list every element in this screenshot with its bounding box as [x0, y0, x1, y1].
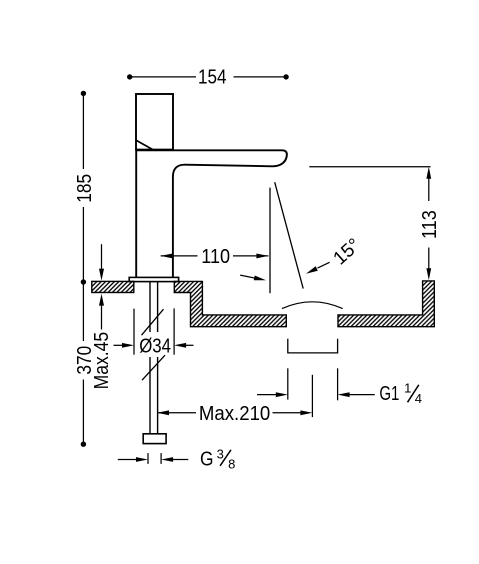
G3/8 right arrow line — [172, 459, 188, 461]
Max.45 label — [91, 332, 113, 390]
dim 185 top dot — [81, 91, 86, 96]
svg-text:G: G — [200, 448, 214, 470]
Max.45 upper arrowhead — [99, 269, 104, 281]
svg-text:Ø34: Ø34 — [139, 336, 171, 358]
dim 34 label background — [138, 336, 173, 355]
dim 185 label — [74, 174, 96, 203]
svg-text:185: 185 — [74, 174, 96, 203]
spout tip extension line — [309, 166, 430, 168]
water stream 15 deg slanted line — [275, 182, 304, 288]
15 deg arrowhead — [306, 266, 318, 273]
dim 370 line upper — [82, 282, 84, 341]
supply pipe left line upper — [149, 282, 151, 332]
supply pipe left line lower — [149, 357, 151, 434]
dim 110 right arrowhead — [256, 254, 268, 259]
dim 34 right extension line — [173, 308, 175, 354]
G3/8 left arrowhead — [136, 457, 148, 462]
G3/8 left extension line — [147, 453, 149, 464]
handle chamfer line — [136, 140, 153, 150]
svg-text:Max.45: Max.45 — [91, 332, 113, 390]
G1-1/4 left arrowhead — [276, 392, 288, 397]
G1-1/4 left arrow line — [257, 394, 277, 396]
15 deg leader line — [318, 262, 330, 268]
faucet base plate — [129, 277, 178, 281]
svg-text:1: 1 — [404, 381, 411, 396]
G3/8 right arrowhead — [161, 457, 173, 462]
Max.45 lower arrowhead — [99, 294, 104, 306]
leader arrow line to stream line — [240, 275, 256, 278]
svg-text:110: 110 — [201, 246, 230, 268]
dim 185 line upper — [82, 93, 84, 169]
Max.210 right line — [273, 412, 303, 414]
dim 370 label — [74, 346, 96, 375]
basin bottom right section with raised edge — [338, 281, 434, 327]
dim 113 line upper — [428, 178, 430, 201]
dim 110 line left — [161, 255, 198, 257]
countertop right section with step down to basin — [174, 281, 286, 326]
supply pipe right line lower — [157, 357, 159, 434]
dim 113 top arrowhead — [426, 167, 431, 179]
G3/8 right extension line — [160, 453, 162, 464]
dim shared middle dot — [81, 279, 86, 284]
drain strainer dome arc — [282, 302, 343, 309]
dim 34 left arrowhead — [122, 343, 134, 348]
Max.210 left arrowhead — [157, 410, 169, 415]
Max.210 drain extension line — [311, 375, 313, 417]
Max.210 right arrowhead — [300, 410, 312, 415]
svg-text:8: 8 — [228, 457, 235, 472]
15 deg label — [330, 235, 365, 270]
G3/8 left arrow line — [118, 459, 137, 461]
drain tailpiece — [288, 339, 338, 353]
leader arrowhead — [254, 276, 266, 281]
dim 110 left arrowhead — [161, 254, 173, 259]
G1-1/4 right extension line — [337, 368, 339, 400]
svg-text:Max.210: Max.210 — [199, 403, 270, 425]
dim 113 bottom arrowhead — [426, 268, 431, 280]
dim 154 left dot — [127, 74, 132, 79]
svg-text:154: 154 — [198, 67, 227, 89]
dim 113 label — [419, 210, 441, 239]
supply pipe right line upper — [157, 282, 159, 332]
dim 185 line lower — [82, 207, 84, 282]
G1-1/4 right arrow line — [349, 394, 375, 396]
svg-text:113: 113 — [419, 210, 441, 239]
G1-1/4 left extension line — [287, 368, 289, 399]
G1-1/4 right arrowhead — [338, 392, 350, 397]
dim 34 left extension line — [133, 309, 135, 355]
faucet body and spout outline — [136, 150, 287, 277]
dim 154 right dot — [283, 74, 288, 79]
Max.210 left line — [157, 412, 196, 414]
svg-text:4: 4 — [415, 391, 422, 406]
dim 34 left arrow line — [114, 344, 124, 346]
hose break slash lower — [142, 355, 165, 380]
svg-text:G1: G1 — [379, 383, 399, 405]
dim 154 line right — [234, 76, 287, 78]
connection nut G3/8 — [143, 434, 166, 444]
handle — [136, 94, 173, 150]
Max.45 upper arrow line — [101, 244, 103, 268]
svg-text:3: 3 — [217, 447, 224, 462]
dim 34 right arrow line — [185, 344, 194, 346]
dim 154 line left — [130, 76, 196, 78]
dim 34 right arrowhead — [174, 343, 186, 348]
Max.45 lower arrow line — [101, 306, 103, 330]
hose break slash upper — [142, 309, 164, 335]
water stream vertical line — [269, 188, 271, 294]
countertop left section — [92, 281, 134, 292]
dim 370 bottom dot — [81, 442, 86, 447]
dim 370 line lower — [82, 380, 84, 445]
dim 110 line right — [233, 255, 268, 257]
dim 113 line lower — [428, 248, 430, 270]
